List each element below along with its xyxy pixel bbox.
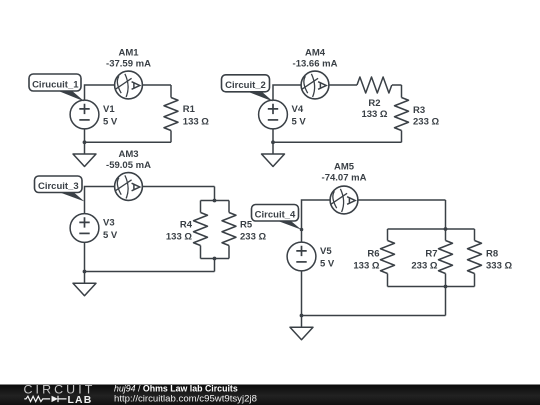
- wire: [84, 129, 86, 142]
- wire: [302, 315, 446, 317]
- svg-text:AM4: AM4: [305, 48, 326, 59]
- svg-text:133 Ω: 133 Ω: [361, 109, 387, 120]
- resistor R4: [166, 201, 208, 259]
- svg-text:-59.05 mA: -59.05 mA: [106, 160, 151, 171]
- svg-text:V5: V5: [320, 246, 332, 257]
- svg-text:R6: R6: [367, 249, 379, 260]
- svg-text:133 Ω: 133 Ω: [166, 232, 192, 243]
- wire: [85, 141, 172, 143]
- wire: [272, 129, 274, 142]
- wire: [201, 200, 230, 202]
- svg-text:R7: R7: [425, 249, 437, 260]
- svg-text:LAB: LAB: [68, 395, 93, 405]
- ground: [262, 142, 285, 166]
- node junction circuit 1: [83, 140, 87, 144]
- node junction parallel3 bottom: [444, 285, 448, 289]
- node junction circuit 2: [271, 140, 275, 144]
- svg-text:R2: R2: [368, 98, 380, 109]
- label Circuit_3: [35, 176, 85, 202]
- label Circuit_4: [252, 205, 304, 232]
- logo CIRCUIT LAB: [24, 382, 96, 405]
- svg-text:Circuit_3: Circuit_3: [38, 181, 79, 192]
- svg-text:AM5: AM5: [334, 162, 355, 173]
- wire: [84, 243, 86, 272]
- label Circuit_2: [222, 75, 274, 102]
- wire: [388, 228, 475, 230]
- svg-text:133 Ω: 133 Ω: [353, 261, 379, 272]
- svg-text:233 Ω: 233 Ω: [413, 116, 439, 127]
- wire: [445, 200, 447, 229]
- resistor R2: [357, 77, 392, 120]
- ammeter AM1: [106, 48, 151, 99]
- svg-text:R1: R1: [183, 104, 196, 115]
- resistor R8: [468, 229, 513, 287]
- ammeter AM5: [322, 162, 367, 214]
- svg-text:huj94 / Ohms Law lab Circuits: huj94 / Ohms Law lab Circuits: [114, 383, 238, 393]
- resistor R6: [353, 229, 394, 287]
- svg-text:R5: R5: [240, 220, 253, 231]
- svg-text:V4: V4: [292, 104, 304, 115]
- svg-text:AM1: AM1: [118, 48, 139, 59]
- wire: [201, 258, 230, 260]
- svg-text:5 V: 5 V: [103, 116, 118, 127]
- voltage source V1: [70, 100, 118, 129]
- wire: [85, 85, 172, 100]
- node junction parallel top: [213, 199, 217, 203]
- wire: [85, 271, 215, 273]
- svg-text:AM3: AM3: [118, 149, 138, 160]
- wire: [445, 287, 447, 316]
- svg-text:5 V: 5 V: [292, 116, 307, 127]
- node junction parallel3 top: [444, 227, 448, 231]
- node junction parallel bottom: [213, 257, 217, 261]
- wire: [388, 286, 475, 288]
- wire: [85, 187, 215, 214]
- resistor R5: [222, 201, 266, 259]
- resistor R1: [164, 85, 209, 142]
- svg-text:5 V: 5 V: [320, 258, 335, 269]
- ground: [73, 272, 96, 296]
- wire: [273, 141, 402, 143]
- ground: [73, 142, 96, 166]
- node junction circuit 4: [300, 314, 304, 318]
- svg-text:R3: R3: [413, 105, 425, 116]
- svg-text:5 V: 5 V: [103, 230, 118, 241]
- resistor R7: [411, 229, 452, 287]
- svg-text:-74.07 mA: -74.07 mA: [322, 173, 367, 184]
- svg-text:R8: R8: [486, 249, 498, 260]
- wire: [301, 271, 303, 316]
- resistor R3: [395, 85, 440, 142]
- footer bar: [0, 385, 540, 405]
- wire: [273, 85, 357, 100]
- svg-text:Circuit_4: Circuit_4: [255, 210, 296, 221]
- svg-text:-37.59 mA: -37.59 mA: [106, 59, 151, 70]
- svg-text:333 Ω: 333 Ω: [486, 261, 512, 272]
- svg-text:R4: R4: [180, 220, 193, 231]
- ammeter AM4: [293, 48, 338, 99]
- svg-text:133 Ω: 133 Ω: [183, 116, 209, 127]
- wire: [302, 200, 446, 242]
- wire: [392, 84, 402, 86]
- ammeter AM3: [106, 149, 151, 200]
- svg-text:233 Ω: 233 Ω: [411, 261, 437, 272]
- wire: [214, 259, 216, 272]
- svg-text:V3: V3: [103, 218, 115, 229]
- wire: [214, 187, 216, 201]
- ground: [290, 316, 313, 340]
- svg-text:V1: V1: [103, 104, 115, 115]
- svg-text:Cirucuit_1: Cirucuit_1: [32, 79, 79, 90]
- label Cirucuit_1: [29, 74, 85, 102]
- voltage source V4: [259, 100, 307, 129]
- node junction circuit 3: [83, 270, 87, 274]
- voltage source V5: [287, 242, 335, 271]
- svg-text:Circuit_2: Circuit_2: [225, 80, 266, 91]
- svg-text:233 Ω: 233 Ω: [240, 232, 266, 243]
- voltage source V3: [70, 214, 118, 243]
- svg-text:-13.66 mA: -13.66 mA: [293, 59, 338, 70]
- svg-text:http://circuitlab.com/c95wt9ts: http://circuitlab.com/c95wt9tsyj2j8: [114, 393, 257, 404]
